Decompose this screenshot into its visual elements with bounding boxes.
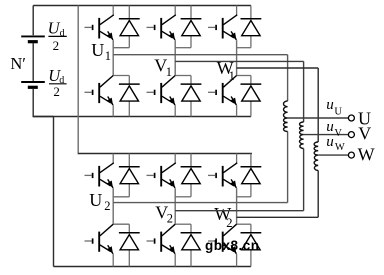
wire: U2 phase junction [113,188,129,224]
wire: V1 output tap to L2 [175,61,303,122]
svg-text:2: 2 [104,199,110,213]
diode D3 (antiparallel of Q3) [181,6,202,48]
node V2 label [155,202,173,225]
diode D5 (antiparallel of Q5) [241,6,262,48]
wire: V1 phase junction [175,40,191,75]
diode D7 (antiparallel of Q7) [119,154,140,197]
wire: V2 phase junction [175,188,191,224]
transistor Q8 (U2 lower IGBT) [85,224,114,266]
transistor Q4 (V1 lower IGBT) [147,76,176,117]
svg-text:u: u [326,119,334,135]
wire: W2 phase junction [237,188,251,224]
svg-text:U: U [89,190,102,210]
wire: top DC bus [33,5,251,7]
svg-text:U: U [334,106,342,117]
svg-text:1: 1 [166,65,172,79]
svg-text:d: d [59,75,64,86]
diode D4 (antiparallel of Q4) [181,76,202,117]
svg-text:1: 1 [229,69,235,83]
inductor L2 [300,122,304,149]
transistor Q1 (U1 upper IGBT) [85,6,114,40]
node U1 label [91,40,111,63]
node W1 label [217,58,235,83]
svg-text:u: u [326,97,334,113]
wire: left DC bus middle segment [32,43,34,81]
svg-text:u: u [326,134,334,150]
wire: U1 output tap to L1 [113,55,287,101]
svg-text:V: V [358,124,371,144]
node U2 label [89,190,110,213]
svg-text:2: 2 [53,38,60,53]
wire: negative bus of lower bridge [54,266,252,268]
transistor Q12 (W2 lower IGBT) [208,224,237,266]
label terminal W [358,144,375,164]
wire: W1 phase junction [237,40,251,75]
svg-text:W: W [335,142,345,153]
inductor L3 [314,142,318,171]
svg-text:U: U [91,40,104,60]
label Ud/2 lower [48,66,66,99]
wire: DC+ link to lower bridge [77,6,79,155]
wire: left DC bus lower segment [32,89,34,118]
wire: W1 output tap to L3 [237,68,319,142]
label uV [326,119,342,139]
node W2 label [214,204,232,230]
wire: negative bus of upper bridge [33,116,251,118]
battery cell Ud/2 upper [21,36,45,41]
label Ud/2 upper [48,19,67,53]
transistor Q11 (W2 upper IGBT) [208,154,237,188]
node V1 label [154,56,172,79]
svg-text:gbx8.cn: gbx8.cn [205,238,260,253]
node W terminal [348,152,354,158]
diode D6 (antiparallel of Q6) [241,76,262,117]
diode D9 (antiparallel of Q9) [181,154,202,197]
wire: V2 output tap to L2 [175,149,303,211]
diode D8 (antiparallel of Q8) [119,224,140,266]
transistor Q9 (V2 upper IGBT) [147,154,176,188]
svg-text:W: W [358,144,375,164]
svg-text:V: V [334,128,342,139]
diode D1 (antiparallel of Q1) [119,6,140,48]
wire: U2 output tap to L1 [113,132,287,203]
transistor Q2 (U1 lower IGBT) [85,76,114,117]
wire: centre tap of L2 to terminal V [304,134,349,136]
wire: centre tap of L3 to terminal W [318,154,348,156]
battery cell Ud/2 lower [21,82,45,87]
svg-text:2: 2 [53,84,60,99]
node V terminal [348,132,354,138]
node U terminal [348,115,354,121]
diode D10 (antiparallel of Q10) [181,224,202,266]
wire: U1 phase junction [113,40,129,75]
transistor Q7 (U2 upper IGBT) [85,154,114,188]
label uU [326,97,342,117]
label uW [326,134,345,153]
label terminal U [358,108,371,128]
inductor L1 [283,101,287,132]
svg-text:d: d [60,28,65,39]
diode D2 (antiparallel of Q2) [119,76,140,117]
wire: positive bus of lower bridge [78,153,252,155]
transistor Q3 (V1 upper IGBT) [147,6,176,40]
transistor Q6 (W1 lower IGBT) [208,76,237,117]
svg-text:N′: N′ [10,54,26,73]
svg-text:1: 1 [105,49,111,63]
svg-text:2: 2 [226,216,232,230]
transistor Q5 (W1 upper IGBT) [208,6,237,40]
diode D11 (antiparallel of Q11) [241,154,262,197]
wire: W2 output tap to L3 [237,171,319,218]
diode D12 (antiparallel of Q12) [241,224,262,266]
label terminal V [358,124,371,144]
watermark gbx8.cn [205,238,260,253]
wire: left DC bus upper segment [32,6,34,36]
wire: DC- link to lower bridge [33,117,53,267]
svg-text:2: 2 [167,211,173,225]
wire: centre tap of L1 to terminal U [288,117,349,119]
node N' [10,54,26,73]
transistor Q10 (V2 lower IGBT) [147,224,176,266]
